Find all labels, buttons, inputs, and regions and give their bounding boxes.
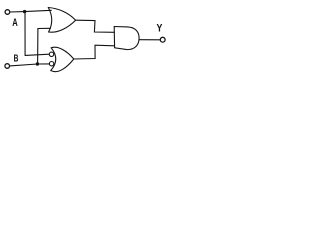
wire A drop vertical (24, 12, 26, 56)
svg-text:B: B (14, 53, 19, 64)
svg-text:Y: Y (157, 23, 163, 35)
bubble U2 input 1 (49, 52, 53, 56)
wire U2 output (74, 45, 115, 59)
wire B to OR gate lower input (38, 27, 51, 29)
node B junction (36, 62, 39, 65)
input terminal A (5, 10, 10, 15)
wire A input to OR gate (10, 10, 51, 12)
svg-text:A: A (12, 17, 18, 29)
wire B rise vertical (37, 29, 39, 65)
and-gate U3 (114, 27, 139, 50)
output terminal Y (160, 37, 165, 42)
wire A to NOR-input bubble (25, 54, 49, 55)
wire U1 output (76, 20, 115, 32)
or-gate U1 top (48, 8, 75, 33)
input terminal B (5, 64, 10, 69)
wire B input (10, 64, 50, 66)
nor-gate U2 bottom (negative-input OR) (51, 47, 74, 71)
bubble U2 input 2 (49, 62, 53, 66)
wire Y output (139, 39, 160, 41)
node A junction (23, 10, 26, 13)
